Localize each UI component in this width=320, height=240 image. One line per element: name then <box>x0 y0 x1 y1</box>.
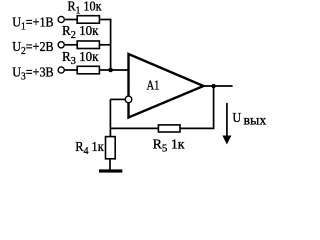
wire output <box>203 85 232 87</box>
arrow Uout <box>222 103 231 145</box>
wire <box>64 19 77 21</box>
wire feedback left <box>110 127 158 129</box>
svg-text:R3 10к: R3 10к <box>62 50 99 67</box>
label Uout <box>233 111 267 129</box>
resistor R5 <box>158 125 180 132</box>
svg-text:A1: A1 <box>147 79 160 94</box>
svg-text:U2=+2В: U2=+2В <box>12 40 53 57</box>
node U1 label <box>12 16 53 33</box>
input terminal U3 <box>58 67 64 73</box>
label R5 1k <box>153 138 185 155</box>
svg-text:U: U <box>233 111 242 126</box>
svg-text:вых: вых <box>244 114 267 129</box>
svg-text:U1=+1В: U1=+1В <box>12 16 53 33</box>
node U2 label <box>12 40 53 57</box>
wire <box>99 19 111 21</box>
resistor R2 <box>77 41 99 49</box>
label R1 10k <box>68 0 102 16</box>
wire <box>64 44 77 46</box>
wire inverting input <box>110 98 125 100</box>
wire feedback right <box>180 86 214 128</box>
wire <box>64 69 77 71</box>
wire <box>99 69 110 71</box>
junction output node <box>211 84 215 88</box>
label R3 10k <box>62 50 99 67</box>
svg-text:R1 10к: R1 10к <box>68 0 102 16</box>
wire to non-inverting input <box>111 69 129 71</box>
resistor R3 <box>77 66 99 74</box>
inverting input bubble <box>125 96 132 103</box>
svg-text:R4 1к: R4 1к <box>75 140 104 157</box>
op-amp A1 <box>129 54 204 118</box>
svg-text:R2 10к: R2 10к <box>62 24 99 41</box>
node U3 label <box>12 65 53 82</box>
label R2 10k <box>62 24 99 41</box>
wire summing bus <box>110 19 112 70</box>
resistor R1 <box>77 16 99 24</box>
label R4 1k <box>75 140 104 157</box>
svg-text:U3=+3В: U3=+3В <box>12 65 53 82</box>
wire <box>99 44 110 46</box>
input terminal U2 <box>58 42 64 48</box>
ground <box>99 169 122 172</box>
junction summing node <box>108 68 113 73</box>
wire down to R4 <box>109 99 111 136</box>
input terminal U1 <box>58 16 64 22</box>
svg-text:R5 1к: R5 1к <box>153 138 185 155</box>
label A1 <box>147 79 160 94</box>
wire R4 to ground <box>109 159 111 170</box>
resistor R4 <box>106 137 116 159</box>
